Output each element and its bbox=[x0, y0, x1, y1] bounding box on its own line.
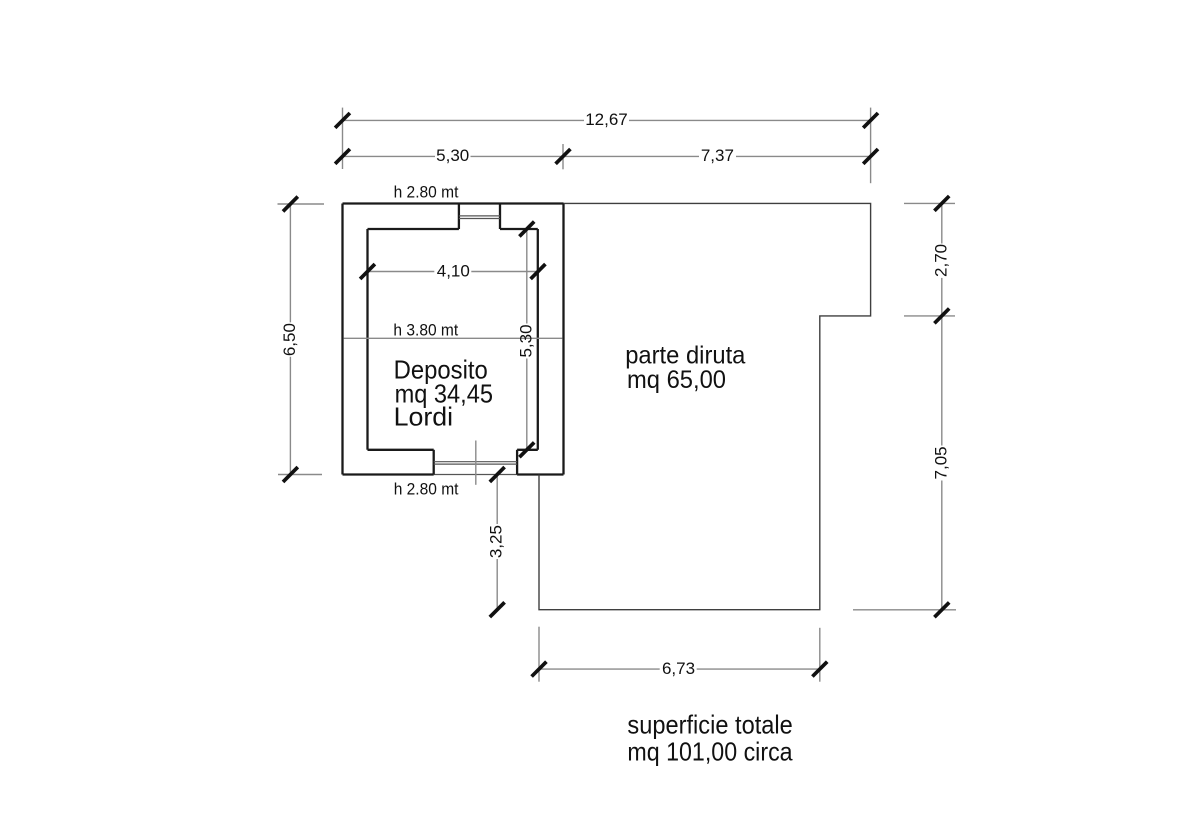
wall inner top edge left segment bbox=[368, 228, 459, 230]
tick 6,50 bottom bbox=[283, 467, 298, 482]
svg-text:4,10: 4,10 bbox=[437, 262, 470, 281]
interior h 3.80 line across room bbox=[344, 337, 563, 339]
svg-text:2,70: 2,70 bbox=[931, 244, 950, 277]
extension line right top bbox=[904, 202, 955, 204]
tick 2,70 top bbox=[934, 196, 949, 211]
svg-text:5,30: 5,30 bbox=[516, 324, 535, 357]
wall inner bottom edge left segment bbox=[368, 449, 434, 451]
tick 7,37 right bbox=[863, 149, 878, 164]
svg-text:mq 65,00: mq 65,00 bbox=[627, 366, 726, 394]
witness line middle of second dimension bbox=[562, 144, 564, 169]
tick 4,10 right bbox=[531, 264, 546, 279]
tick 6,73 left bbox=[532, 662, 547, 677]
svg-text:3,25: 3,25 bbox=[487, 525, 506, 558]
witness line 6,73 right bbox=[819, 628, 821, 682]
bottom window jamb left (wall end cap) bbox=[433, 450, 435, 475]
dimension line 6,50 left bbox=[289, 204, 291, 475]
wall outer bottom thin line across opening bbox=[434, 474, 517, 476]
dimension line 5,30 vertical interior bbox=[526, 229, 528, 450]
dimension line 2,70 / 7,05 right bbox=[941, 203, 943, 609]
tick 3,25 bottom bbox=[490, 602, 505, 617]
dimension line 12,67 bbox=[343, 119, 871, 121]
tick 5,30 vertical top bbox=[519, 222, 534, 237]
tick 12,67 right bbox=[863, 113, 878, 128]
svg-text:6,73: 6,73 bbox=[662, 659, 695, 678]
svg-text:superficie totale: superficie totale bbox=[627, 710, 792, 740]
tick 7,05 bottom bbox=[934, 602, 949, 617]
svg-text:7,05: 7,05 bbox=[931, 446, 950, 479]
witness line right of top dimensions bbox=[870, 108, 872, 184]
wall inner left edge bbox=[366, 229, 368, 450]
dimension line 6,73 bottom bbox=[539, 668, 820, 670]
top window jamb left bbox=[458, 204, 460, 230]
tick 12,67 left bbox=[335, 113, 350, 128]
parte diruta outline bbox=[539, 203, 871, 609]
extension line 6,50 top bbox=[278, 203, 325, 205]
svg-text:12,67: 12,67 bbox=[585, 110, 628, 129]
tick 4,10 left bbox=[360, 264, 375, 279]
witness line left of top dimensions bbox=[342, 108, 344, 169]
wall inner top edge right segment bbox=[500, 228, 538, 230]
wall inner bottom edge right segment bbox=[517, 449, 538, 451]
tick 5,30 left bbox=[335, 149, 350, 164]
svg-text:7,37: 7,37 bbox=[701, 146, 734, 165]
extension line right bottom bbox=[853, 609, 956, 611]
svg-text:Lordi: Lordi bbox=[394, 401, 454, 431]
tick 6,50 top bbox=[283, 197, 298, 212]
wall outer rectangle of Deposito room bbox=[343, 204, 564, 475]
svg-text:5,30: 5,30 bbox=[436, 146, 469, 165]
tick 6,73 right bbox=[812, 662, 827, 677]
bottom window glazing lines bbox=[434, 462, 517, 464]
witness line 6,73 left bbox=[538, 627, 540, 682]
extension line right middle bbox=[904, 315, 955, 317]
tick 3,25 top bbox=[490, 467, 505, 482]
wall inner right edge bbox=[537, 229, 539, 450]
dimension line 3,25 bbox=[496, 475, 498, 610]
top window glazing lines bbox=[459, 216, 500, 219]
dimension line 5,30 / 7,37 bbox=[343, 155, 871, 157]
svg-text:h 3.80 mt: h 3.80 mt bbox=[393, 321, 458, 340]
svg-text:h 2.80 mt: h 2.80 mt bbox=[394, 183, 459, 202]
svg-text:h 2.80 mt: h 2.80 mt bbox=[394, 480, 459, 499]
extension line 6,50 bottom bbox=[278, 474, 322, 476]
bottom window center line bbox=[475, 441, 477, 485]
tick 2,70/7,05 middle bbox=[934, 309, 949, 324]
top window jamb right bbox=[499, 204, 501, 230]
svg-text:mq 101,00 circa: mq 101,00 circa bbox=[627, 737, 793, 767]
tick 5,30/7,37 middle bbox=[556, 149, 571, 164]
dimension line 4,10 interior bbox=[368, 271, 539, 273]
svg-text:6,50: 6,50 bbox=[280, 323, 299, 356]
bottom window jamb right (wall step) bbox=[516, 450, 518, 475]
tick 5,30 vertical bottom bbox=[519, 442, 534, 457]
